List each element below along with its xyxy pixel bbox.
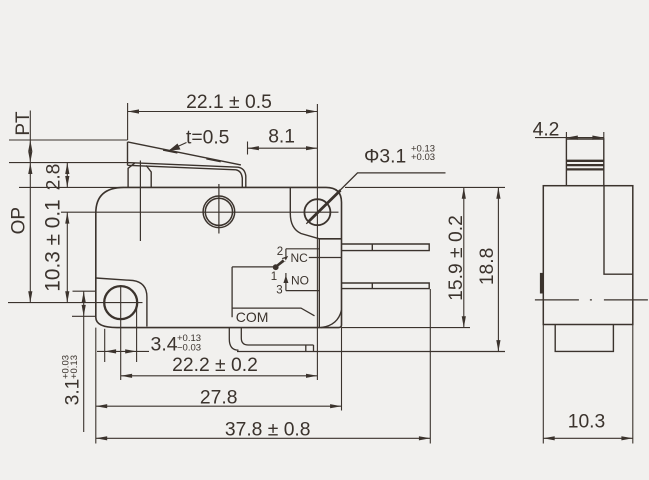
arrow 18.8 top [496,187,500,198]
svg-text:NC: NC [291,251,309,265]
schematic NO stub [285,285,287,291]
arrow 8.1 right [306,146,317,150]
svg-text:Φ3.1: Φ3.1 [364,147,406,168]
svg-text:+0.03: +0.03 [411,152,435,163]
arrow PT top [28,140,32,151]
svg-text:3.1: 3.1 [63,379,84,406]
svg-text:8.1: 8.1 [268,127,295,148]
dim 18.8 line [497,187,499,351]
arrow t=0.5 [169,144,181,151]
arrow 27.8 right [330,404,341,408]
arrow 10.3 top [65,212,69,223]
arrow 3.4 left [105,349,116,353]
hole top-right [304,199,330,225]
dim 3.4 line [97,350,149,352]
svg-text:3.4: 3.4 [151,334,178,356]
arrow 18.8 bottom [496,340,500,351]
hole top-right extension line vertical [316,104,318,380]
svg-text:10.3: 10.3 [568,411,606,432]
lever bar [128,142,246,188]
hole bottom-left centerline horizontal [8,302,143,304]
svg-text:27.8: 27.8 [200,388,238,409]
arrow PT bottom [28,151,32,162]
dim 3.1 bottom extension [72,315,96,317]
ref line body top left extension [19,186,124,188]
arrow 8.1 left [248,146,259,150]
schematic COM wire [232,267,314,317]
internal boss bottom-left [96,278,147,327]
leader phi3.1 [306,173,445,224]
arrow 22.1 right [306,109,317,113]
arrow 4.2 right [592,136,603,140]
hole bottom-left centerline vertical [120,287,122,380]
body bottom right extension [342,327,471,329]
dim PT line [29,111,31,163]
side left tab [540,273,543,294]
svg-text:t=0.5: t=0.5 [186,127,229,148]
hole bottom-left [104,286,137,319]
arrow 22.2 left [121,374,132,378]
side plunger ribs [566,161,603,170]
svg-text:37.8 ± 0.8: 37.8 ± 0.8 [225,419,311,440]
dim 15.9 line [463,187,465,327]
arrow 22.2 right [306,374,317,378]
terminal 2 (NO) [342,283,430,289]
t=0.5 leader [170,143,187,151]
svg-text:NO: NO [291,274,309,288]
body right edge extension [341,328,343,411]
svg-text:COM: COM [236,309,269,325]
side inner step [604,186,633,275]
svg-text:4.2: 4.2 [533,120,560,141]
arrows [28,109,500,440]
dim 3.4 left extension [104,329,106,362]
svg-text:1: 1 [271,271,277,283]
arrow 2.8 bottom [65,176,69,187]
internal shelf [319,238,341,240]
hole top-middle centerline vertical [218,184,220,234]
plunger centerline [139,161,141,242]
body left edge extension [95,328,97,444]
svg-text:22.2 ± 0.2: 22.2 ± 0.2 [172,355,258,376]
dim 22.1 extension left [127,103,129,140]
arrow 15.9 bottom [462,316,466,327]
side plunger [566,139,603,186]
arrow 4.2 left [566,136,577,140]
terminal tip extension [429,289,431,444]
svg-text:2: 2 [277,246,283,258]
svg-text:−0.03: −0.03 [177,343,201,354]
svg-text:+0.03: +0.03 [61,355,72,379]
arrow 37.8 right [419,436,430,440]
dim 3.1 top extension [73,290,97,292]
lever free position line [128,142,241,165]
dim 10.3 side extensions [543,325,633,444]
schematic NC stub [285,249,287,257]
dim 3.1 line [83,291,85,432]
hole center line OP (horizontal through top holes) [61,211,339,213]
arrow OP top [28,163,32,174]
svg-text:OP: OP [9,207,30,234]
schematic bracket bottom [286,290,320,292]
body outline (front view) [96,187,342,327]
svg-text:10.3 ± 0.1: 10.3 ± 0.1 [41,199,64,291]
terminal 1 (NC) [342,244,430,251]
arrow 37.8 left [96,436,107,440]
arrow 27.8 left [96,404,107,408]
dim OP line [29,163,31,303]
hole top-middle [203,196,235,228]
body top right extension [345,186,505,188]
ref line operating position [9,162,128,164]
arrow 2.8 top [65,163,69,174]
dim 8.1 line [248,147,318,149]
dim 3.4 right extension [136,303,138,362]
dim 27.8 line [96,405,342,407]
ref line free position [9,139,128,141]
dim 4.2 line [535,137,604,139]
schematic pivot dot [273,264,279,270]
arrow 10.3 bottom [65,291,69,302]
schematic movable arm [275,256,288,268]
svg-text:15.9 ± 0.2: 15.9 ± 0.2 [446,215,467,301]
dim 4.2 extensions [566,132,603,139]
internal cavity top-right [290,187,319,327]
arrow 3.4 right [125,349,136,353]
side body outline [543,186,633,325]
svg-text:18.8: 18.8 [477,248,498,286]
plunger (front view) [128,163,151,187]
arrow 10.3 side left [543,436,554,440]
svg-text:PT: PT [13,111,34,136]
arrow 3.1 top [82,291,86,302]
lever dashed position line [163,150,243,166]
schematic bracket top [286,248,320,250]
schematic NO arrow [283,275,288,283]
arrow OP bottom [28,291,32,302]
dim 8.1 extension [247,142,249,155]
dim 22.2 line [121,375,318,377]
dim 22.1 line [128,111,318,113]
arrow 15.9 top [462,187,466,198]
arrow 22.1 left [128,109,139,113]
schematic NC dash [309,257,342,259]
dim 10.3 side line [543,437,633,439]
svg-text:3: 3 [276,284,282,296]
svg-text:22.1 ± 0.5: 22.1 ± 0.5 [186,92,272,113]
leader bold segment through hole [309,190,341,221]
bottom terminal strip [229,328,505,352]
side foot [555,325,613,352]
svg-text:2.8: 2.8 [43,164,64,191]
arrow 3.1 bottom [82,305,86,316]
internal fillet bottom-right [321,310,342,328]
arrow 10.3 side right [621,436,632,440]
dim 10.3±0.1 line [66,212,68,302]
dim 37.8 line [96,437,431,439]
side centerline dash-dot [535,299,648,301]
dim 2.8 line [66,163,68,188]
